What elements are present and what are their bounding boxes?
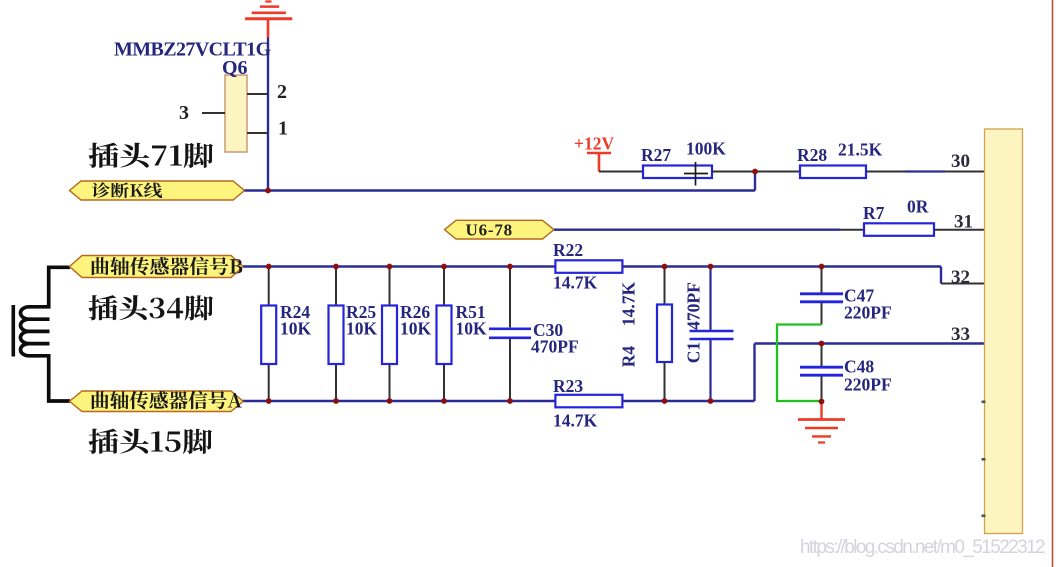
svg-text:C48: C48	[844, 357, 874, 377]
svg-text:1: 1	[278, 118, 288, 140]
svg-text:10K: 10K	[346, 319, 378, 339]
svg-text:R27: R27	[641, 145, 671, 165]
svg-text:32: 32	[951, 267, 970, 288]
svg-text:14.7K: 14.7K	[553, 411, 598, 431]
svg-text:3: 3	[179, 102, 189, 124]
svg-text:10K: 10K	[456, 319, 488, 339]
svg-text:R22: R22	[553, 240, 583, 260]
svg-text:14.7K: 14.7K	[553, 273, 598, 293]
svg-text:220PF: 220PF	[844, 303, 892, 323]
svg-text:Q6: Q6	[222, 57, 248, 79]
svg-text:R7: R7	[863, 203, 885, 223]
svg-text:10K: 10K	[280, 319, 312, 339]
svg-text:33: 33	[951, 324, 970, 345]
svg-text:470PF: 470PF	[531, 337, 579, 357]
svg-text:2: 2	[277, 81, 287, 103]
svg-text:0R: 0R	[907, 197, 929, 217]
svg-text:C1: C1	[684, 342, 704, 363]
svg-text:30: 30	[951, 151, 970, 172]
svg-text:R28: R28	[797, 145, 827, 165]
svg-text:R23: R23	[553, 376, 583, 396]
svg-text:R4: R4	[619, 346, 639, 368]
svg-text:470PF: 470PF	[684, 282, 704, 330]
svg-text:14.7K: 14.7K	[619, 282, 639, 327]
svg-text:U6-78: U6-78	[466, 221, 513, 240]
svg-text:10K: 10K	[400, 319, 432, 339]
svg-text:MMBZ27VCLT1G: MMBZ27VCLT1G	[114, 39, 272, 61]
svg-text:100K: 100K	[686, 139, 726, 159]
svg-text:21.5K: 21.5K	[838, 140, 883, 160]
svg-text:+12V: +12V	[574, 134, 614, 154]
svg-text:31: 31	[954, 212, 973, 233]
svg-text:220PF: 220PF	[844, 375, 892, 395]
